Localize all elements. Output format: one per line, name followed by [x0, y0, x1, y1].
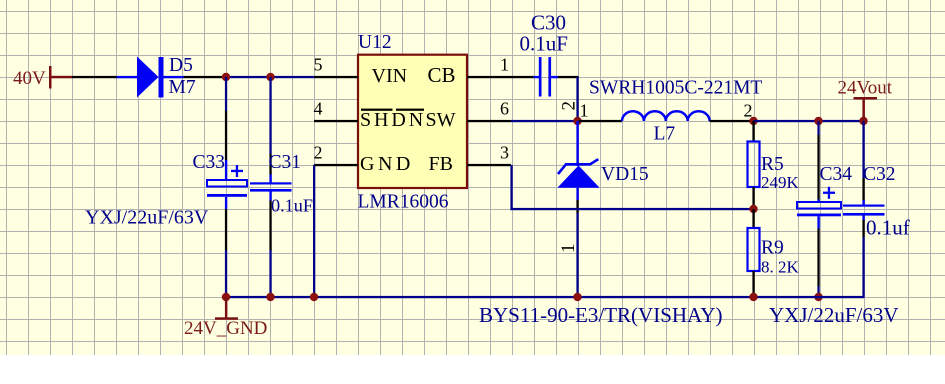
svg-text:40V: 40V [13, 68, 46, 89]
junction ground rail C31 [266, 293, 274, 301]
junction ground rail GND pin [310, 293, 318, 301]
port 24V_GND [184, 297, 267, 339]
wire output node horizontal [754, 120, 865, 122]
port 24Vout [838, 78, 893, 122]
svg-text:FB: FB [429, 153, 453, 175]
svg-text:1: 1 [558, 244, 579, 254]
wire C34 column lower [817, 229, 819, 287]
svg-text:BYS11-90-E3/TR(VISHAY): BYS11-90-E3/TR(VISHAY) [479, 303, 722, 327]
IC U12 body [358, 55, 467, 188]
svg-text:VIN: VIN [372, 65, 408, 87]
junction C34 top [814, 117, 822, 125]
svg-text:3: 3 [500, 143, 509, 163]
svg-text:SW: SW [426, 109, 456, 131]
wire VIN node horizontal [226, 76, 314, 78]
wire SW node to L7 [579, 120, 623, 122]
capacitor C34 [797, 187, 841, 229]
svg-text:2: 2 [314, 143, 323, 163]
svg-text:M7: M7 [169, 77, 196, 98]
ground rail wire [226, 296, 865, 298]
svg-text:R5: R5 [761, 154, 784, 175]
junction SW node [573, 117, 581, 125]
wire pin1 to C30 [511, 76, 534, 78]
svg-text:24V_GND: 24V_GND [184, 318, 267, 339]
svg-text:6: 6 [500, 99, 509, 119]
wire C32 column upper [862, 121, 864, 178]
wire C31 column upper [269, 77, 271, 175]
wire output node to R5 [752, 121, 754, 142]
svg-text:24Vout: 24Vout [838, 78, 893, 99]
svg-text:5: 5 [314, 55, 323, 75]
junction ground rail VD15 [573, 293, 581, 301]
wire C31 column lower [269, 201, 271, 298]
svg-text:GND: GND [360, 153, 414, 175]
wire VD15 to ground rail [576, 200, 578, 297]
capacitor C32 [843, 200, 885, 221]
wire C33 column lower [225, 209, 227, 297]
pin 3 FB [429, 143, 512, 175]
junction L7 output node [749, 117, 757, 125]
resistor R5 [748, 142, 760, 188]
junction FB node [749, 205, 757, 213]
junction ground rail C33 [222, 293, 230, 301]
junction at C31 top [266, 73, 274, 81]
svg-text:0.1uF: 0.1uF [520, 32, 568, 56]
diode D5 [117, 57, 184, 98]
resistor R9 [748, 228, 760, 271]
svg-text:0.1uF: 0.1uF [271, 196, 313, 216]
svg-text:SWRH1005C-221MT: SWRH1005C-221MT [589, 78, 762, 99]
svg-text:SHDN: SHDN [360, 109, 426, 131]
wire R9 to ground rail [752, 271, 754, 297]
svg-text:YXJ/22uF/63V: YXJ/22uF/63V [85, 207, 209, 229]
wire FB horizontal [510, 208, 754, 210]
svg-text:C31: C31 [269, 152, 302, 173]
wire FB node to R9 [752, 209, 754, 228]
wire C33 column upper [225, 77, 227, 160]
wire L7 to output node [710, 120, 754, 122]
capacitor C33 [207, 160, 247, 209]
capacitor C30 [534, 57, 559, 97]
svg-text:C33: C33 [193, 152, 226, 173]
svg-text:VD15: VD15 [601, 164, 649, 185]
wire C34 column upper [817, 121, 819, 135]
svg-text:1: 1 [500, 55, 509, 75]
svg-text:U12: U12 [358, 32, 392, 53]
wire SHDN-GND column [313, 165, 315, 297]
junction 24Vout node [859, 117, 867, 125]
wire SW pin6 to node [511, 120, 578, 122]
wire FB vertical [510, 165, 512, 210]
inductor L7 [622, 111, 710, 121]
junction C34 bottom [814, 293, 822, 301]
pin 6 SW [426, 99, 512, 131]
svg-text:CB: CB [428, 63, 456, 87]
wire R5 to FB node [752, 187, 754, 209]
wire C32 column lower [862, 220, 864, 237]
svg-text:YXJ/22uF/63V: YXJ/22uF/63V [769, 303, 899, 327]
pin 4 SHDN [314, 99, 427, 131]
wire D5 to node [184, 76, 227, 78]
wire C30 to SW corner [558, 76, 579, 121]
svg-text:R9: R9 [761, 238, 784, 259]
svg-text:8. 2K: 8. 2K [761, 258, 800, 277]
svg-text:C34: C34 [820, 164, 853, 185]
pin 1 CB [428, 55, 512, 87]
pin 2 GND [314, 143, 414, 175]
svg-text:1: 1 [580, 101, 589, 121]
svg-text:2: 2 [559, 101, 580, 111]
svg-text:L7: L7 [654, 124, 676, 145]
svg-text:0.1uf: 0.1uf [866, 216, 910, 240]
zener diode VD15 [557, 121, 599, 200]
pin 5 VIN [314, 55, 408, 87]
svg-text:LMR16006: LMR16006 [358, 192, 449, 213]
junction ground rail R9 [749, 293, 757, 301]
svg-text:2: 2 [744, 101, 753, 121]
svg-text:D5: D5 [169, 55, 193, 76]
svg-text:C32: C32 [863, 164, 896, 185]
junction at C33 top [222, 73, 230, 81]
wire 40V to D5 [72, 76, 117, 78]
capacitor C31 [250, 175, 292, 201]
svg-text:4: 4 [314, 99, 323, 119]
port 40V [13, 66, 72, 89]
svg-text:249K: 249K [761, 173, 800, 192]
